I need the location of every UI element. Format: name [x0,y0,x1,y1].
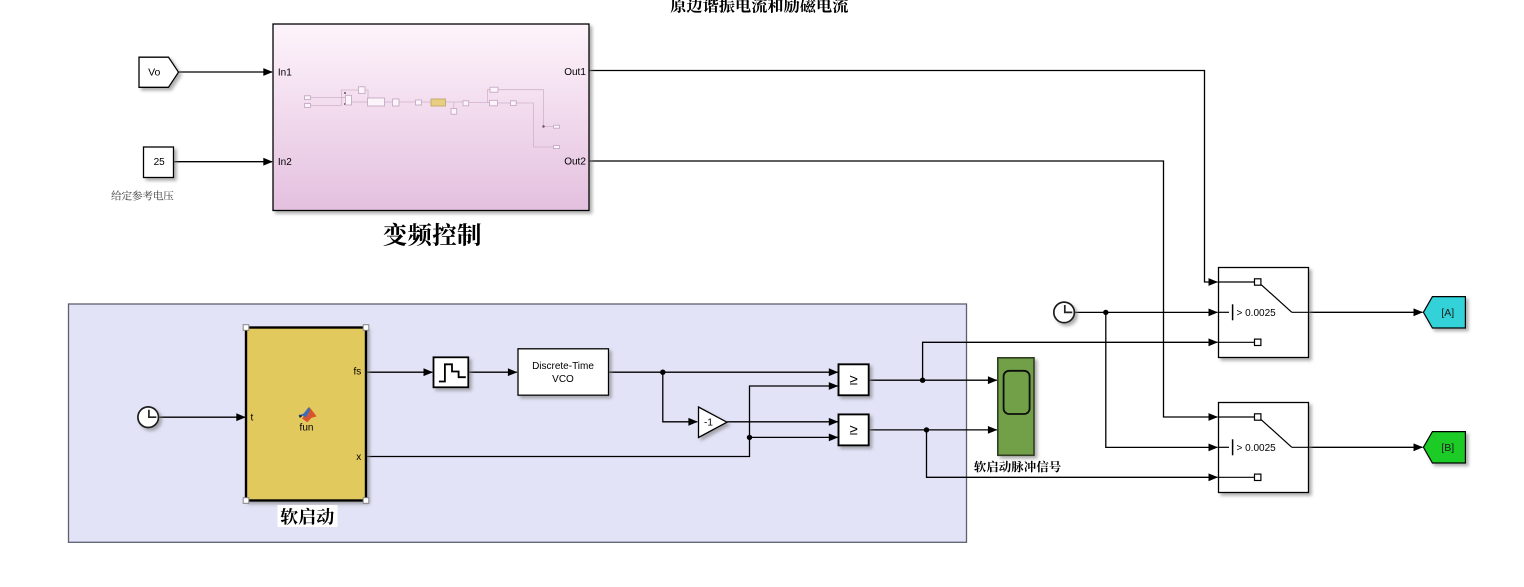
wire clock1 to fun t [159,413,246,421]
svg-text:> 0.0025: > 0.0025 [1237,443,1277,454]
label 软启动脉冲信号 [974,461,1061,473]
gain -1 [699,407,728,438]
wire ge2 branch to switch2 in3 [927,430,1219,481]
from tag Vo [139,57,179,87]
label 软启动 [278,505,338,527]
label 变频控制 [383,223,480,246]
MATLAB function fun [246,328,366,501]
wire switch1 to gotoA [1309,308,1424,316]
wire ge1 branch to switch1 in3 [923,338,1218,380]
svg-text:≥: ≥ [849,372,857,389]
svg-text:fs: fs [354,367,362,378]
wire fun x to ge1 in2 [366,382,838,456]
wire ge2 to scope in2 [869,426,997,434]
label 给定参考电压 [111,190,173,200]
switch switch1 [1219,268,1309,358]
goto A [1423,297,1465,328]
svg-text:[A]: [A] [1441,307,1454,319]
junction clock2 branch [1103,310,1108,315]
selection handles [243,325,369,504]
wire x branch to ge2 in2 [750,434,839,442]
subsystem 变频控制 [273,24,589,211]
constant 25 [144,147,174,178]
junction x branch [747,435,752,440]
wire VCO to ge1 in1 [609,368,839,376]
svg-text:t: t [251,413,254,424]
Discrete-Time VCO [518,349,609,395]
matlab logo [299,407,317,422]
subsystem thumbnail [305,87,560,149]
svg-text:Vo: Vo [148,66,160,78]
svg-text:VCO: VCO [552,374,574,385]
wire VCO branch to gain [663,372,698,426]
svg-text:≥: ≥ [849,422,857,439]
wire clock2 branch to switch2 in2 [1106,312,1218,451]
goto B [1423,432,1465,463]
relational ge2 [839,414,869,445]
svg-text:In1: In1 [278,67,292,78]
title 原边谐振电流和励磁电流 [671,0,848,13]
switch switch2 [1219,403,1309,493]
wire 25 to In2 [174,158,273,166]
wire Out2 to switch2 in1 [589,161,1218,421]
clock2 [1054,302,1075,323]
relational ge1 [839,364,869,395]
wire switch2 to gotoB [1309,443,1424,451]
wire Vo to In1 [179,68,273,76]
wire ge1 to scope in1 [869,376,997,384]
svg-text:25: 25 [154,157,166,168]
wire fun fs to stair [366,368,433,376]
svg-text:Discrete-Time: Discrete-Time [532,361,594,372]
scope [998,358,1034,456]
svg-text:x: x [356,452,361,463]
svg-text:[B]: [B] [1441,442,1454,454]
svg-text:> 0.0025: > 0.0025 [1237,308,1277,319]
wire clock2 to switch1 in2 [1074,309,1218,317]
svg-text:-1: -1 [704,418,713,429]
svg-text:In2: In2 [278,157,292,168]
junction ge2 branch [924,427,929,432]
fun port labels [251,367,362,463]
soft-start area box [69,304,967,542]
wire gain to ge2 in1 [727,418,838,426]
wire Out1 to switch1 in1 [589,71,1218,286]
svg-text:Out2: Out2 [564,157,586,168]
repeating stair block [434,357,469,387]
junction VCO branch [660,370,665,375]
junction ge1 branch [920,378,925,383]
subsystem port labels [278,67,586,168]
svg-text:fun: fun [300,422,314,433]
svg-text:Out1: Out1 [564,67,586,78]
clock1 [138,407,159,428]
wire stair to VCO [468,368,517,376]
